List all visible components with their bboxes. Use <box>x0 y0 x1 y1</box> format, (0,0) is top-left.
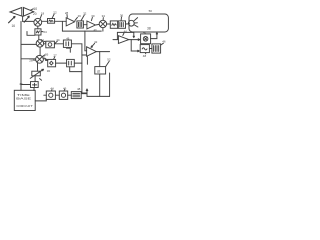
wire A3 to mixer M4 <box>95 23 99 26</box>
branch to osc box with arrow <box>131 40 139 52</box>
wire M2 to M3 <box>39 47 41 55</box>
svg-text:46: 46 <box>162 40 166 44</box>
leader 42 arrow <box>91 43 95 47</box>
wire delta down <box>99 74 101 96</box>
feedback wire top <box>117 31 133 33</box>
svg-text:28: 28 <box>29 58 33 62</box>
wire S down-left to rail <box>21 85 34 91</box>
label 44b <box>124 29 128 33</box>
svg-text:16: 16 <box>12 24 16 28</box>
arrow junction up <box>86 89 88 96</box>
svg-text:30: 30 <box>47 69 51 73</box>
svg-text:48: 48 <box>143 54 147 58</box>
label 25 <box>42 55 46 59</box>
label 26b <box>78 14 82 18</box>
wire to handset <box>126 23 130 25</box>
control box <box>14 90 35 110</box>
svg-text:26: 26 <box>45 52 49 56</box>
signal arrow left 16 <box>9 16 16 22</box>
svg-text:40: 40 <box>143 31 147 35</box>
bus join bottom <box>82 92 87 94</box>
wire M3 down to attenuator <box>37 63 39 71</box>
oscillator box 24 <box>35 29 41 35</box>
label 36 <box>120 14 124 18</box>
svg-text:26: 26 <box>78 14 82 18</box>
label 27 <box>53 54 57 58</box>
audio filter box hatched <box>118 21 125 28</box>
wire M2 to chainA <box>44 43 46 45</box>
label 46 <box>19 82 23 86</box>
wire chainB boxes <box>56 62 67 64</box>
label 42b <box>94 40 98 44</box>
label 26c <box>66 37 70 41</box>
box S <box>31 82 39 88</box>
wire attenuator to box S <box>34 76 36 82</box>
label 26 leader <box>43 55 45 57</box>
amp A4 input drop <box>113 32 118 39</box>
label 30 <box>47 69 51 73</box>
antenna left triangle <box>10 8 22 17</box>
delta box <box>95 67 106 74</box>
label 22 <box>53 11 57 15</box>
reference box hatched <box>71 92 81 99</box>
amp A4 <box>118 36 128 44</box>
label 46c <box>162 40 166 44</box>
U1 output <box>96 51 109 53</box>
wire rail to M2 <box>21 43 36 45</box>
IF amp U1 <box>87 47 97 57</box>
leader 28 <box>33 59 36 61</box>
wire rail to M3 <box>21 58 36 60</box>
leader above chainB box2 <box>67 48 71 52</box>
wire left rail <box>20 21 22 90</box>
vertical bus x82 <box>81 44 83 93</box>
label 34 <box>102 14 106 18</box>
label 44 <box>50 86 54 90</box>
svg-text:20: 20 <box>33 12 37 16</box>
svg-text:32: 32 <box>83 12 87 16</box>
svg-text:46: 46 <box>66 37 70 41</box>
AGC chain A box1 <box>46 41 55 48</box>
label 16 <box>12 24 16 28</box>
label 50 <box>149 9 153 13</box>
wire chainB box2 bottom loop <box>70 67 82 72</box>
label 24 <box>41 31 43 33</box>
wire A4 to mod box with arrow <box>129 39 140 41</box>
svg-text:10: 10 <box>33 7 37 11</box>
label 18 <box>41 11 45 15</box>
tick label 31 <box>40 79 42 81</box>
variable arrow <box>30 69 43 78</box>
svg-text:48: 48 <box>77 87 81 91</box>
svg-text:50: 50 <box>149 9 153 13</box>
svg-text:38: 38 <box>147 26 151 30</box>
oscillator box 42 <box>140 45 149 53</box>
wire rail to U1 <box>85 31 87 51</box>
label 48b <box>143 54 147 58</box>
label 20 <box>33 12 37 16</box>
wire M4 down to LO wire <box>102 28 104 31</box>
svg-text:46: 46 <box>19 82 23 86</box>
label 28 <box>29 58 33 62</box>
wire ref box out <box>81 93 87 95</box>
divider box D2 <box>59 91 67 99</box>
label 44c <box>56 38 60 42</box>
loop right vertical <box>109 73 111 96</box>
mixer M3 <box>36 55 44 63</box>
crystal box 46 <box>152 44 161 53</box>
wire M1 to F1 <box>42 20 48 22</box>
bottom loop wire <box>87 95 110 97</box>
modulator box 40 <box>141 34 151 44</box>
detector box <box>110 21 117 28</box>
filter box F1 <box>48 19 55 24</box>
label 48 <box>77 87 81 91</box>
wire chainA out <box>71 43 82 45</box>
label 38 <box>147 26 151 30</box>
label 32 <box>83 12 87 16</box>
wire control box to divider chain <box>35 99 46 101</box>
label 26 <box>45 52 49 56</box>
wire osc to mixer M2 <box>38 35 40 40</box>
leader for 10 <box>31 9 34 10</box>
wire osc to crystal <box>149 48 152 50</box>
wire chainB out to bus <box>74 62 82 64</box>
branch down from F1 wire <box>61 21 63 31</box>
wire antenna to mixer M1 <box>23 20 34 22</box>
chain B box1 <box>48 59 56 66</box>
svg-text:24: 24 <box>43 30 47 34</box>
LO distribution wire <box>62 30 101 32</box>
wire antenna down <box>22 16 24 21</box>
label 40 <box>143 31 147 35</box>
label 10 <box>33 7 37 11</box>
chain B box2 <box>67 59 75 66</box>
label 30b <box>91 14 95 18</box>
signal arrow right <box>24 16 29 22</box>
svg-text:Δt: Δt <box>97 69 100 73</box>
crystal filter H <box>77 21 84 28</box>
amp A3 <box>87 21 96 29</box>
label 28b <box>65 11 69 15</box>
svg-text:30: 30 <box>91 14 95 18</box>
earpiece circle <box>128 20 134 26</box>
stub left of divider D1 <box>44 94 47 96</box>
tee to U1 lower input <box>82 54 87 56</box>
divider box D1 <box>46 91 55 99</box>
handset rounded box <box>129 14 168 32</box>
label 40b on LO wire <box>94 28 97 32</box>
wire down to delta box <box>99 52 101 67</box>
svg-text:CIRCUIT: CIRCUIT <box>16 104 33 108</box>
svg-text:40: 40 <box>94 28 97 32</box>
antenna right triangle <box>24 8 34 17</box>
wire F1 to amp A2 <box>55 20 67 22</box>
feedback wire drop with arrow <box>133 32 134 37</box>
svg-text:BASE: BASE <box>16 97 31 101</box>
mixer M1 <box>34 18 42 26</box>
mixer M2 <box>36 40 43 47</box>
svg-text:27: 27 <box>53 54 57 58</box>
amp A2 <box>66 18 75 26</box>
leader 52 <box>106 61 110 66</box>
wire D2-ref <box>68 94 72 96</box>
wire D1-D2 <box>55 94 59 96</box>
chain A box2 <box>63 40 71 47</box>
variable attenuator box <box>32 71 41 76</box>
wire M1 to osc box <box>37 26 39 29</box>
mixer M4 <box>99 20 106 27</box>
label 24b <box>41 38 45 42</box>
wire chainA boxes <box>54 43 63 45</box>
earpiece waves <box>134 18 138 27</box>
wire mod box up to handset <box>151 33 158 39</box>
label 46b <box>63 86 67 90</box>
wire stub into osc box <box>27 32 35 36</box>
wire M3 to chainB <box>43 59 47 61</box>
stub below U1 base <box>86 57 88 65</box>
label 52 <box>107 58 111 62</box>
wire H to amp A3 <box>83 24 87 26</box>
wire M4 to det box <box>107 23 111 25</box>
